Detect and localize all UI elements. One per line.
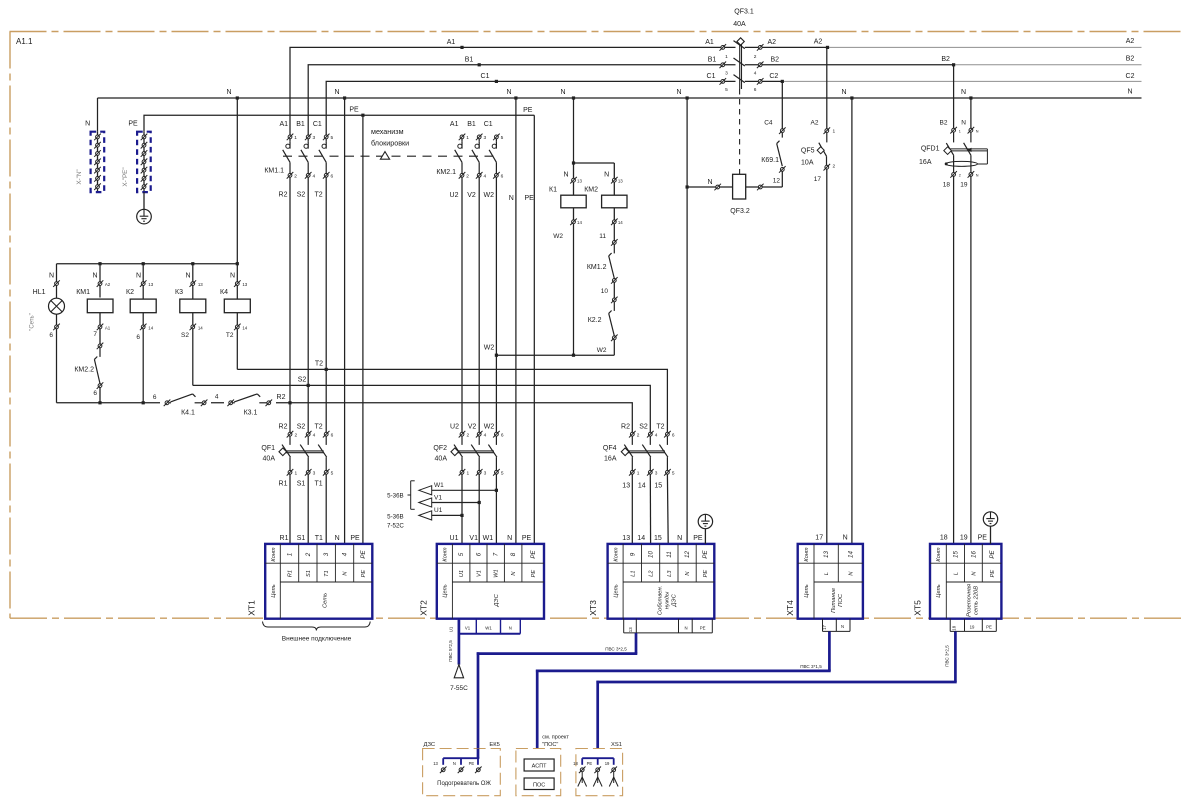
wire QF5 to XT4 (826, 169, 828, 544)
svg-text:S2: S2 (639, 423, 648, 430)
breaker QF2 40A (433, 423, 503, 476)
svg-text:PE: PE (525, 195, 535, 202)
terminal block X-N (76, 121, 104, 193)
svg-text:T2: T2 (656, 423, 664, 430)
svg-text:14: 14 (637, 535, 645, 542)
svg-text:13: 13 (148, 282, 153, 287)
svg-text:19: 19 (970, 624, 975, 629)
contact K2.2 (10) (588, 282, 618, 341)
svg-text:3: 3 (313, 471, 316, 477)
svg-text:1: 1 (294, 135, 297, 141)
bus labels right edge (1126, 38, 1135, 96)
svg-text:S1: S1 (297, 481, 306, 488)
svg-text:13: 13 (628, 627, 633, 632)
contact K4.1 (153, 394, 211, 417)
svg-text:Розеточная: Розеточная (966, 584, 972, 617)
svg-text:A1: A1 (105, 325, 111, 330)
svg-text:Цепь: Цепь (443, 584, 449, 597)
svg-text:18: 18 (952, 625, 957, 630)
RCD breaker QFD1 16A (919, 127, 987, 189)
svg-text:L1: L1 (630, 570, 636, 576)
svg-text:Подогреватель ОЖ: Подогреватель ОЖ (437, 781, 491, 787)
wire S2 horizontal (193, 377, 651, 433)
svg-text:18: 18 (573, 761, 578, 766)
svg-text:13: 13 (577, 179, 582, 184)
svg-text:N: N (677, 535, 682, 542)
svg-text:механизм: механизм (371, 127, 404, 136)
svg-text:N: N (507, 535, 512, 542)
svg-text:5-36В: 5-36В (387, 514, 404, 521)
svg-text:PE: PE (350, 535, 360, 542)
svg-text:V1: V1 (476, 570, 482, 577)
svg-text:Конт: Конт (804, 547, 810, 561)
svg-text:A2: A2 (814, 39, 823, 46)
svg-text:16А: 16А (919, 159, 932, 166)
svg-text:17: 17 (815, 535, 823, 542)
junction PE-XT1 (361, 114, 364, 117)
svg-text:A1: A1 (447, 39, 456, 46)
svg-text:нужды: нужды (665, 591, 671, 609)
svg-text:R1: R1 (280, 535, 289, 542)
svg-text:W2: W2 (484, 423, 495, 430)
svg-text:N: N (453, 761, 456, 766)
svg-text:2: 2 (466, 174, 469, 180)
svg-text:14: 14 (618, 220, 623, 225)
wire S2 column (307, 177, 309, 432)
svg-text:3: 3 (312, 135, 315, 141)
svg-text:Цепь: Цепь (613, 584, 619, 597)
wire N rail to relays (57, 98, 239, 265)
svg-text:Конт: Конт (271, 547, 277, 561)
svg-text:W1: W1 (485, 625, 492, 630)
wire K69.1 to QF3.2 (781, 171, 783, 187)
svg-text:"ПОС": "ПОС" (542, 742, 558, 748)
svg-text:1: 1 (725, 54, 728, 60)
svg-text:T1: T1 (324, 570, 330, 577)
terminal block XT3 (588, 544, 714, 619)
wire K1 to W2 line (573, 224, 575, 356)
svg-text:PE: PE (587, 761, 593, 766)
svg-text:13: 13 (618, 179, 623, 184)
svg-text:19: 19 (605, 761, 610, 766)
svg-text:Цепь: Цепь (271, 584, 277, 597)
svg-text:АСПТ: АСПТ (532, 764, 547, 770)
svg-text:5: 5 (501, 135, 504, 141)
svg-text:КМ1.1: КМ1.1 (264, 167, 284, 174)
svg-text:сеть 220В: сеть 220В (973, 586, 979, 615)
svg-text:14: 14 (198, 325, 203, 330)
svg-text:13: 13 (242, 282, 247, 287)
svg-text:1: 1 (466, 471, 469, 477)
junction C2 branch C4 (781, 80, 784, 83)
N bus labels (226, 89, 966, 96)
XT5 stub terminals (950, 619, 996, 632)
relay rail N labels (49, 272, 235, 279)
release coil QF3.2 (687, 174, 782, 215)
svg-text:КМ2: КМ2 (584, 187, 598, 194)
svg-text:ПВС 5*2,5: ПВС 5*2,5 (448, 640, 453, 662)
svg-text:PE: PE (989, 550, 996, 559)
svg-text:N: N (226, 89, 231, 96)
svg-text:17: 17 (822, 625, 827, 630)
svg-text:4: 4 (215, 393, 219, 400)
svg-text:8: 8 (510, 552, 517, 556)
breaker QF4 16A (603, 423, 675, 489)
wire QFD1 to XT5 18 (953, 176, 955, 544)
interlock triangle (380, 152, 389, 160)
svg-text:C1: C1 (484, 121, 493, 128)
wire A2 to QF5 (811, 47, 827, 128)
svg-text:QF3.2: QF3.2 (730, 208, 750, 215)
wire V2 column (478, 177, 480, 432)
tap U1 5-36V 7-52C (419, 507, 464, 520)
svg-text:B1: B1 (708, 56, 717, 63)
svg-text:B2: B2 (1126, 56, 1135, 63)
svg-text:К69.1: К69.1 (761, 157, 779, 164)
svg-text:W1: W1 (494, 569, 500, 577)
svg-text:2: 2 (305, 552, 312, 557)
svg-text:6: 6 (153, 394, 157, 401)
svg-text:QFD1: QFD1 (921, 145, 940, 152)
svg-text:S2: S2 (297, 192, 306, 199)
XT4 stub terminals (822, 619, 850, 632)
interlock mechanism dashed link (283, 127, 496, 156)
svg-text:6: 6 (93, 390, 97, 397)
svg-text:3: 3 (655, 471, 658, 477)
svg-text:T2: T2 (226, 332, 234, 339)
svg-text:A2: A2 (1126, 38, 1135, 45)
svg-text:U2: U2 (450, 423, 459, 430)
svg-text:T1: T1 (315, 481, 323, 488)
svg-text:L2: L2 (649, 570, 655, 577)
tap V1 5-36V (419, 495, 481, 508)
junction N dots (236, 96, 973, 99)
breaker QF5 (801, 127, 836, 183)
relay coil KM2 (584, 163, 627, 225)
brace external connection (263, 622, 371, 643)
wire A2 bus (745, 46, 1142, 48)
svg-text:T2: T2 (315, 192, 323, 199)
svg-text:N: N (92, 272, 97, 279)
svg-text:A1.1: A1.1 (16, 37, 33, 46)
ground symbol XT5 PE (983, 512, 997, 544)
svg-text:R2: R2 (279, 423, 288, 430)
junction A1-KM2.1 (460, 46, 463, 49)
svg-text:3: 3 (484, 471, 487, 477)
svg-text:К3: К3 (175, 289, 183, 296)
wire W2 column (495, 177, 497, 432)
svg-text:B2: B2 (941, 56, 950, 63)
svg-text:N: N (335, 535, 340, 542)
contact K69.1 (761, 127, 785, 184)
svg-text:2: 2 (466, 433, 469, 439)
relay coil K2 (126, 264, 156, 403)
junction C1-KM2.1 (495, 80, 498, 83)
svg-text:К2: К2 (126, 289, 134, 296)
svg-text:19: 19 (960, 535, 968, 542)
svg-text:5: 5 (672, 471, 675, 477)
wire N to XT1 (344, 98, 346, 544)
svg-text:40А: 40А (733, 21, 746, 28)
junction B2 branch QFD1 (952, 63, 955, 66)
relay coil KM1 (76, 264, 113, 344)
svg-text:PE: PE (360, 550, 367, 559)
svg-text:PE: PE (700, 626, 706, 631)
svg-text:6: 6 (501, 174, 504, 180)
svg-text:1: 1 (466, 135, 469, 141)
wire QF1 to XT1 (290, 474, 326, 544)
svg-text:PE: PE (530, 550, 537, 559)
wire N to XT2 (509, 98, 516, 544)
svg-text:6: 6 (475, 552, 482, 556)
svg-text:V2: V2 (467, 192, 476, 199)
svg-text:Цепь: Цепь (936, 584, 942, 597)
XT4 wire labels (815, 535, 847, 542)
svg-text:14: 14 (848, 551, 855, 558)
svg-text:19: 19 (960, 182, 968, 189)
svg-text:3: 3 (725, 70, 728, 76)
svg-text:2: 2 (294, 433, 297, 439)
svg-text:QF2: QF2 (433, 445, 447, 452)
svg-text:4: 4 (484, 433, 487, 439)
svg-text:1: 1 (637, 471, 640, 477)
box DZS heater (423, 742, 501, 796)
svg-text:C1: C1 (481, 73, 490, 80)
wire X-PE drop (143, 132, 145, 192)
wire R2 bottom rail (57, 401, 633, 432)
svg-text:N: N (230, 272, 235, 279)
svg-text:N: N (563, 172, 568, 179)
relay coil K1 (549, 163, 586, 240)
svg-text:QF3.1: QF3.1 (734, 8, 754, 15)
XT1 wire labels (280, 535, 360, 542)
wire A1 bus (290, 47, 736, 135)
svg-text:ДЗС: ДЗС (424, 742, 436, 748)
svg-text:PE: PE (693, 535, 703, 542)
wire QFD1 to XT5 19 (970, 176, 972, 544)
svg-text:Питание: Питание (831, 587, 837, 613)
svg-text:N: N (509, 195, 514, 202)
bus labels left (447, 39, 717, 80)
svg-text:W2: W2 (597, 347, 607, 354)
svg-text:ПВС 3*1,5: ПВС 3*1,5 (800, 664, 822, 669)
svg-text:V2: V2 (468, 423, 477, 430)
svg-text:18: 18 (940, 535, 948, 542)
wire N bus (98, 97, 1142, 99)
svg-text:N: N (185, 272, 190, 279)
svg-text:PE: PE (702, 550, 709, 559)
svg-text:T2: T2 (315, 423, 323, 430)
svg-text:W2: W2 (484, 192, 495, 199)
svg-text:14: 14 (148, 325, 153, 330)
svg-text:6: 6 (501, 433, 504, 439)
svg-text:5: 5 (501, 471, 504, 477)
cable PVS 3x1.5 XT4 to ASPT (536, 631, 831, 748)
svg-text:К4: К4 (220, 289, 228, 296)
svg-text:W2: W2 (484, 345, 495, 352)
svg-text:HL1: HL1 (33, 289, 46, 296)
svg-text:ЕК5: ЕК5 (489, 742, 499, 748)
breaker QF1 40A (261, 423, 333, 487)
svg-text:КМ2.2: КМ2.2 (74, 367, 94, 374)
contact KM1.2 (11) (587, 224, 618, 284)
svg-text:15: 15 (654, 535, 662, 542)
svg-text:12: 12 (684, 551, 691, 558)
svg-text:C2: C2 (769, 73, 778, 80)
svg-text:ПОС: ПОС (533, 782, 545, 788)
wire C2 bus (745, 80, 1142, 82)
svg-text:PE: PE (523, 107, 533, 114)
svg-text:5: 5 (331, 471, 334, 477)
svg-text:A1: A1 (450, 121, 459, 128)
svg-text:40А: 40А (263, 456, 276, 463)
contactor KM1.1 main contacts (264, 121, 333, 199)
svg-text:1: 1 (287, 553, 294, 556)
svg-text:PE: PE (128, 121, 138, 128)
svg-text:U1: U1 (450, 535, 459, 542)
svg-text:6: 6 (754, 87, 757, 93)
svg-text:PE: PE (986, 624, 992, 629)
wire T2 horizontal (237, 361, 667, 433)
wire PE to XT1 (362, 115, 364, 544)
terminal block XT4 (785, 544, 863, 619)
wire U2 column (461, 177, 463, 432)
svg-text:PE: PE (349, 107, 359, 114)
ground symbol X-PE (137, 192, 152, 224)
svg-text:N: N (707, 179, 712, 186)
svg-text:15: 15 (654, 483, 662, 490)
svg-text:КМ1: КМ1 (76, 289, 90, 296)
svg-text:XT1: XT1 (247, 600, 257, 616)
svg-text:N: N (49, 272, 54, 279)
svg-text:N: N (961, 120, 966, 127)
svg-text:N: N (976, 173, 979, 177)
svg-text:6: 6 (330, 174, 333, 180)
wire QF4 to XT3 (632, 474, 668, 544)
svg-text:N: N (136, 272, 141, 279)
svg-text:L: L (824, 572, 830, 575)
terminal block XT2 (419, 544, 545, 619)
svg-text:4: 4 (313, 433, 316, 439)
svg-text:XS1: XS1 (611, 742, 622, 748)
svg-text:S2: S2 (298, 377, 307, 384)
svg-text:N: N (604, 172, 609, 179)
svg-text:К2.2: К2.2 (588, 317, 602, 324)
svg-text:5: 5 (725, 87, 728, 93)
svg-text:10А: 10А (801, 160, 814, 167)
label A1.1 (16, 37, 33, 46)
svg-text:R2: R2 (279, 192, 288, 199)
svg-text:PE: PE (469, 761, 475, 766)
wire N to QF3.2 (686, 98, 689, 544)
svg-text:T2: T2 (315, 361, 323, 368)
svg-text:10: 10 (601, 288, 609, 295)
svg-text:40А: 40А (435, 456, 448, 463)
terminal block X-PE (122, 121, 151, 193)
svg-text:7-55С: 7-55С (450, 685, 468, 692)
wire PE to XT2 (525, 115, 535, 544)
cable PVS 3x2.5 XT3 to DZS (477, 633, 638, 749)
svg-text:W2: W2 (553, 233, 563, 240)
terminal block XT1 (247, 544, 373, 619)
svg-text:16: 16 (970, 551, 977, 558)
wire B2 to QFD1 (940, 65, 954, 129)
lamp HL1 (30, 264, 65, 403)
svg-text:Внешнее подключение: Внешнее подключение (282, 636, 352, 643)
svg-text:C4: C4 (764, 120, 773, 127)
contact KM2.2 (74, 343, 103, 403)
svg-text:PE: PE (978, 535, 988, 542)
svg-text:5: 5 (330, 135, 333, 141)
relay coil K4 (220, 264, 250, 370)
svg-text:7: 7 (493, 552, 500, 556)
svg-text:N: N (976, 130, 979, 134)
svg-text:X-"PE": X-"PE" (122, 167, 129, 186)
svg-text:N: N (334, 89, 339, 96)
ground symbol XT3 PE (698, 514, 712, 544)
svg-text:B2: B2 (771, 56, 780, 63)
cable PVS 3x2.5 XT5 to XS1 (596, 631, 956, 748)
tap W1 5-36V (419, 482, 498, 495)
svg-text:QF5: QF5 (801, 147, 815, 154)
svg-text:6: 6 (49, 332, 53, 339)
svg-text:7-52С: 7-52С (387, 522, 404, 529)
svg-text:C2: C2 (1126, 73, 1135, 80)
svg-text:4: 4 (312, 174, 315, 180)
svg-text:2: 2 (959, 173, 961, 177)
svg-text:5-36В: 5-36В (387, 493, 404, 500)
wire C4 drop (764, 81, 782, 128)
svg-text:К1: К1 (549, 187, 557, 194)
svg-text:КМ1.2: КМ1.2 (587, 264, 607, 271)
svg-text:R2: R2 (621, 423, 630, 430)
svg-text:R2: R2 (277, 394, 286, 401)
svg-text:V1: V1 (434, 495, 442, 502)
svg-text:N: N (676, 89, 681, 96)
svg-text:9: 9 (629, 552, 636, 556)
svg-text:4: 4 (483, 174, 486, 180)
svg-text:A1: A1 (705, 39, 714, 46)
svg-text:3: 3 (323, 552, 330, 556)
wire B2 bus (745, 64, 1142, 66)
svg-text:U1: U1 (434, 507, 443, 514)
svg-text:17: 17 (814, 176, 822, 183)
svg-text:Конт: Конт (443, 547, 449, 561)
svg-text:N: N (684, 626, 687, 631)
svg-text:Сеть: Сеть (322, 593, 328, 608)
svg-text:13: 13 (823, 551, 830, 558)
svg-text:КМ2.1: КМ2.1 (436, 169, 456, 176)
svg-text:C1: C1 (313, 121, 322, 128)
wire W2 horizontal (484, 345, 615, 357)
svg-text:N: N (961, 89, 966, 96)
svg-text:N: N (841, 89, 846, 96)
svg-text:15: 15 (952, 551, 959, 558)
svg-text:"Сеть": "Сеть" (30, 313, 36, 331)
svg-text:PE: PE (531, 570, 537, 578)
wire T2 column (325, 177, 327, 432)
svg-text:L: L (953, 572, 959, 575)
svg-text:N: N (843, 535, 848, 542)
svg-text:PE: PE (361, 570, 367, 578)
wire R2 column (289, 177, 291, 432)
svg-text:7: 7 (93, 331, 97, 338)
svg-text:B1: B1 (296, 121, 305, 128)
svg-text:N: N (1127, 89, 1132, 96)
svg-text:S1: S1 (297, 535, 306, 542)
XT2 stub terminals (449, 619, 521, 634)
svg-text:6: 6 (331, 433, 334, 439)
